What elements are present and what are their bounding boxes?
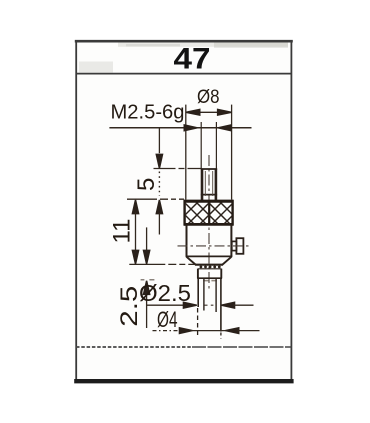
dim 2.5 upper tail xyxy=(146,227,148,250)
dia8 arrow left xyxy=(186,109,200,115)
knurl outline xyxy=(184,200,234,226)
threaded stud body xyxy=(201,169,217,201)
stem outer right line xyxy=(220,278,222,331)
dia4 dimension line right tail xyxy=(238,330,260,332)
dia2.5 right arrow (left-pointing) xyxy=(221,302,234,308)
stem inner left line xyxy=(203,278,205,310)
dia2.5 left arrow (right-pointing) xyxy=(183,302,196,308)
dia2.5 center dashes xyxy=(205,304,214,306)
center axis line xyxy=(208,155,210,289)
dia4 dimension mid line xyxy=(191,330,226,332)
stud top reference line xyxy=(154,168,202,170)
dia2.5 dimension line left part xyxy=(147,304,196,306)
svg-text:47: 47 xyxy=(174,42,211,75)
M2.5 arrow pointing left xyxy=(218,125,231,131)
table frame: header top line xyxy=(74,40,293,382)
cone slant right xyxy=(222,257,231,265)
dia4 left arrow (right-pointing) xyxy=(179,328,192,334)
knurl top reference line xyxy=(127,198,184,200)
right frame vertical xyxy=(290,40,292,382)
header divider xyxy=(76,73,292,75)
dia4 dimension line left dash-dot tail xyxy=(153,330,184,332)
svg-text:M2.5-6g: M2.5-6g xyxy=(111,101,185,123)
gray marks under collar xyxy=(203,280,217,282)
svg-text:5: 5 xyxy=(133,178,160,191)
dim 5 lower arrow (up) xyxy=(156,200,162,214)
left frame vertical xyxy=(75,40,77,382)
dia2.5 dimension line right tail xyxy=(234,304,254,306)
dia4 right arrow (left-pointing) xyxy=(225,328,238,334)
stud thread core line left xyxy=(204,171,206,196)
dim 11 upper arrow (up) xyxy=(132,200,138,214)
dim 11 lower arrow (down) xyxy=(132,250,138,264)
M2.5 arrow pointing right xyxy=(184,125,197,131)
dim 5 upper tail xyxy=(158,129,160,154)
stem outer left dashed extension xyxy=(197,308,199,338)
svg-text:Ø8: Ø8 xyxy=(197,87,220,108)
clamp knob head xyxy=(236,238,243,254)
M2.5 extension line left xyxy=(200,122,202,169)
dim 2.5 lower tail xyxy=(146,294,148,328)
knurl crosshatch xyxy=(169,199,256,226)
dia8 extension line right xyxy=(231,105,233,200)
stud thread runout line xyxy=(201,194,217,196)
cone top line xyxy=(186,255,233,257)
bottom thick line xyxy=(74,379,293,383)
serration dots under cone xyxy=(200,266,221,269)
cone slant left xyxy=(187,257,196,265)
stem outer right dashed extension xyxy=(220,333,222,339)
dia8 arrow right xyxy=(218,109,232,115)
cone bottom line xyxy=(195,264,223,266)
collar bottom gray reference dashes xyxy=(141,279,155,281)
collar xyxy=(197,269,222,279)
dia8 extension line left xyxy=(185,105,187,200)
dim 11 line xyxy=(135,212,137,252)
cone bottom reference line xyxy=(129,263,195,265)
knob axis centerline xyxy=(178,245,249,247)
dim 5 upper arrow (down) xyxy=(156,154,162,168)
dia8 dimension line xyxy=(186,111,232,113)
M2.5 dimension/underline line xyxy=(109,127,251,129)
stem inner right line xyxy=(215,278,217,312)
figure bottom row line xyxy=(76,346,192,348)
M2.5 extension line right xyxy=(215,122,217,169)
body cylinder xyxy=(186,224,233,264)
dim 5 lower tail xyxy=(158,213,160,235)
dim 2.5 lower arrow (up) xyxy=(144,281,150,295)
dim 5 dotted span xyxy=(158,172,160,197)
dim 2.5 upper arrow (down) xyxy=(144,250,150,264)
stem outer left line xyxy=(197,278,199,307)
faint scan smudge in header xyxy=(118,43,288,47)
stud thread core line right xyxy=(212,171,214,196)
clamp knob neck xyxy=(232,241,237,250)
svg-text:Ø4: Ø4 xyxy=(157,307,178,332)
svg-text:11: 11 xyxy=(109,219,136,244)
knurl middle split xyxy=(208,201,210,225)
